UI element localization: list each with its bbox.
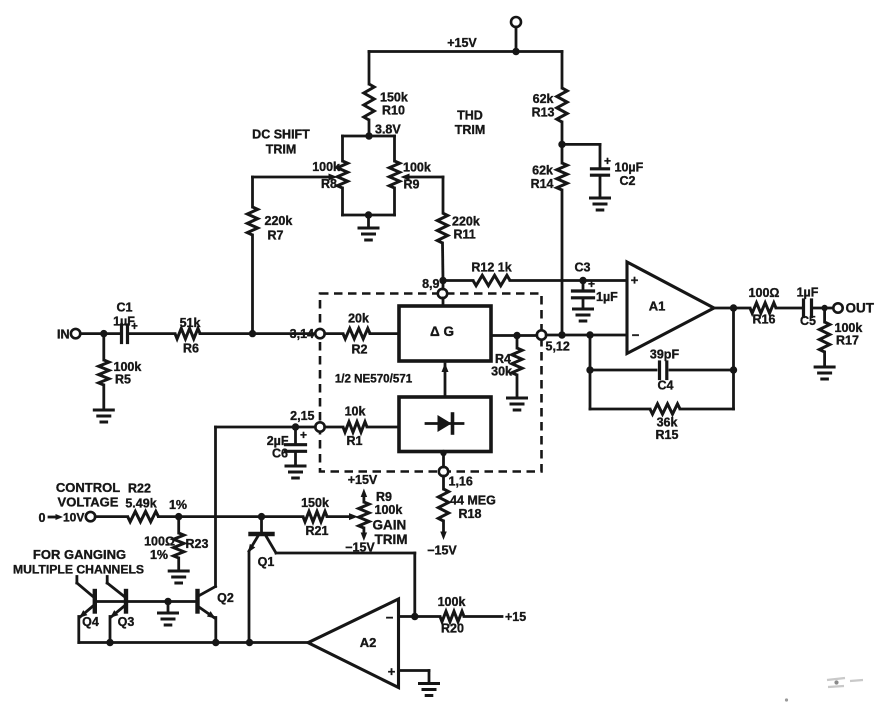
wire A1 output [714, 304, 750, 311]
svg-text:CONTROL: CONTROL [56, 480, 120, 495]
svg-text:Q3: Q3 [118, 615, 135, 629]
wire trim bracket top [343, 135, 395, 138]
wire feedback right [730, 308, 737, 409]
diode symbol [426, 414, 463, 433]
svg-text:C3: C3 [575, 261, 591, 275]
resistor R16 [749, 286, 803, 327]
resistor R17 [819, 308, 862, 367]
svg-text:1µF: 1µF [797, 286, 819, 300]
svg-text:−: − [386, 610, 394, 625]
potentiometer R9 (DC shift) [389, 136, 431, 215]
svg-text:R9: R9 [376, 490, 392, 504]
svg-text:R11: R11 [454, 228, 476, 242]
wire base bus [97, 598, 196, 605]
label DC SHIFT TRIM [252, 128, 310, 157]
wire delta-G output [491, 332, 537, 339]
wire A2 minus input [399, 613, 441, 620]
label CONTROL VOLTAGE [56, 480, 120, 510]
svg-text:TRIM: TRIM [375, 532, 408, 547]
svg-text:R15: R15 [656, 428, 679, 442]
capacitor C4 [590, 348, 734, 393]
node +15V rail [369, 48, 562, 55]
svg-text:Q2: Q2 [217, 591, 234, 605]
svg-text:THD: THD [457, 109, 483, 123]
svg-text:1%: 1% [150, 548, 168, 562]
svg-text:C4: C4 [658, 379, 674, 393]
svg-text:62k: 62k [532, 164, 553, 178]
ground (C6) [286, 466, 305, 478]
svg-text:−15V: −15V [427, 544, 457, 558]
capacitor C5 [797, 286, 819, 329]
svg-text:GAIN: GAIN [373, 518, 407, 533]
svg-text:R12 1k: R12 1k [471, 261, 511, 275]
svg-text:R23: R23 [186, 537, 209, 551]
svg-text:A1: A1 [649, 299, 666, 314]
label THD TRIM [455, 109, 486, 138]
resistor R20 [438, 595, 502, 636]
wire feedback left [586, 335, 593, 409]
svg-text:1/2 NE570/571: 1/2 NE570/571 [335, 373, 413, 386]
ground (C2) [591, 198, 610, 210]
svg-text:+: + [388, 664, 396, 679]
potentiometer R8 [312, 136, 348, 215]
wire trim bracket bottom [343, 211, 395, 218]
wire emitter rail [79, 639, 308, 646]
svg-text:1µF: 1µF [596, 290, 618, 304]
wire C5 to OUT [812, 305, 834, 311]
pin 2,15 [290, 409, 325, 432]
ground (R5) [94, 410, 113, 422]
svg-text:Q1: Q1 [258, 555, 275, 569]
svg-text:R17: R17 [836, 334, 859, 348]
terminal IN [57, 328, 80, 342]
capacitor C1 [113, 301, 175, 343]
transistor Q2 [198, 587, 234, 643]
resistor R2 [325, 312, 399, 357]
label FOR GANGING MULTIPLE CHANNELS [13, 547, 144, 577]
power terminal +15V [511, 17, 521, 52]
ground (R23) [169, 571, 188, 583]
svg-text:100k: 100k [375, 503, 403, 517]
ground (R17) [815, 367, 834, 379]
svg-text:R2: R2 [352, 343, 368, 357]
svg-text:+: + [631, 273, 639, 288]
wire control line [158, 513, 303, 520]
svg-text:IN: IN [57, 328, 70, 342]
label -15V (R18) [427, 544, 457, 558]
svg-text:+: + [604, 154, 611, 168]
block delta-G [399, 306, 491, 361]
svg-text:10µF: 10µF [615, 161, 644, 175]
node R13/R14 [558, 141, 565, 148]
capacitor C6 [267, 427, 307, 466]
capacitor C3 [573, 261, 619, 310]
label 1% (R22) [169, 498, 187, 512]
svg-text:8,9: 8,9 [422, 277, 439, 291]
svg-text:1µF: 1µF [113, 315, 135, 329]
svg-text:44 MEG: 44 MEG [450, 494, 496, 508]
svg-text:R22: R22 [128, 482, 151, 496]
svg-text:+15: +15 [505, 610, 526, 624]
svg-text:R7: R7 [268, 229, 284, 243]
resistor R15 [590, 404, 734, 442]
resistor R22 [95, 482, 158, 522]
svg-text:−: − [632, 328, 640, 343]
svg-text:5,12: 5,12 [546, 340, 570, 354]
resistor R11 [437, 213, 480, 281]
resistor R18 [438, 450, 496, 540]
wire input [80, 332, 120, 335]
svg-text:R9: R9 [404, 178, 420, 192]
svg-text:100Ω: 100Ω [144, 535, 175, 549]
svg-text:R13: R13 [532, 106, 555, 120]
svg-text:C6: C6 [272, 447, 288, 461]
svg-text:TRIM: TRIM [455, 123, 486, 137]
wire R8 wiper [253, 174, 338, 181]
svg-text:R6: R6 [183, 342, 199, 356]
svg-text:1%: 1% [169, 498, 187, 512]
svg-text:+15V: +15V [348, 473, 378, 487]
wire Q1 to A2 [276, 553, 415, 617]
ground (base bus) [159, 602, 178, 626]
label +15V [447, 36, 477, 50]
svg-text:150k: 150k [380, 91, 408, 105]
pin 8,9 [422, 277, 447, 298]
svg-text:100k: 100k [312, 160, 340, 174]
label +15 (R20) [505, 610, 526, 624]
wire gain-cell link [442, 363, 449, 397]
svg-text:20k: 20k [348, 312, 369, 326]
svg-text:R21: R21 [306, 524, 329, 538]
svg-text:2,15: 2,15 [290, 409, 314, 423]
svg-text:C1: C1 [117, 301, 133, 315]
wire 2,15 left [216, 423, 316, 430]
ground (A2 plus) [420, 684, 439, 696]
svg-text:R20: R20 [441, 622, 464, 636]
svg-text:62k: 62k [533, 92, 554, 106]
capacitor C2 [592, 144, 644, 198]
node 3.8V [365, 123, 401, 140]
svg-text:150k: 150k [301, 496, 329, 510]
pin 3,14 [290, 327, 325, 341]
svg-text:3.8V: 3.8V [375, 123, 401, 137]
op-amp A2 [308, 599, 399, 688]
svg-text:100k: 100k [438, 595, 466, 609]
resistor R13 [532, 52, 568, 164]
svg-text:MULTIPLE CHANNELS: MULTIPLE CHANNELS [13, 563, 144, 577]
wire R9 wiper [401, 174, 444, 214]
svg-text:R14: R14 [531, 177, 554, 191]
node R7 junction [249, 330, 256, 337]
label 1/2 NE570/571 [335, 373, 413, 386]
pin 5,12 [537, 330, 570, 353]
resistor R7 [247, 177, 292, 334]
svg-text:C5: C5 [800, 314, 816, 328]
transistor Q1 [245, 517, 276, 569]
ground (trim bracket) [359, 215, 378, 240]
svg-text:Q4: Q4 [82, 615, 99, 629]
resistor R14 [531, 163, 568, 335]
svg-text:C2: C2 [620, 174, 636, 188]
node R5 tap [100, 330, 107, 337]
transistor Q4 [77, 577, 99, 643]
transistor Q3 [107, 577, 134, 643]
resistor R6 [175, 316, 315, 356]
svg-text:220k: 220k [452, 215, 480, 229]
resistor R1 [325, 405, 399, 449]
NE570 dashed box [320, 294, 542, 472]
svg-text:0: 0 [39, 511, 46, 525]
op-amp A1 [627, 262, 714, 354]
svg-text:10k: 10k [345, 405, 366, 419]
svg-text:39pF: 39pF [650, 348, 680, 362]
svg-text:1,16: 1,16 [449, 475, 473, 489]
wire A2 plus input [399, 671, 430, 684]
svg-text:220k: 220k [265, 214, 293, 228]
svg-text:10V: 10V [63, 511, 84, 525]
svg-text:100Ω: 100Ω [749, 286, 780, 300]
svg-text:OUT: OUT [846, 301, 875, 316]
svg-text:R16: R16 [753, 313, 776, 327]
svg-text:A2: A2 [360, 635, 377, 650]
ground (R4) [508, 398, 527, 410]
wire 5,12 to A1 minus [546, 331, 626, 338]
svg-text:+: + [300, 428, 307, 442]
svg-text:+: + [588, 277, 595, 291]
svg-text:Δ G: Δ G [430, 324, 454, 339]
svg-text:+15V: +15V [447, 36, 477, 50]
resistor R21 [301, 496, 358, 538]
resistor R23 [144, 517, 208, 571]
svg-text:TRIM: TRIM [266, 143, 297, 157]
smudges [785, 678, 863, 702]
svg-text:R5: R5 [115, 373, 131, 387]
resistor R12 [443, 261, 626, 286]
terminal 0-10V [39, 511, 96, 526]
ground (C3) [574, 309, 593, 321]
node C3 tap [579, 277, 586, 284]
svg-text:R10: R10 [382, 104, 405, 118]
svg-text:3,14: 3,14 [290, 327, 314, 341]
svg-text:VOLTAGE: VOLTAGE [58, 495, 119, 510]
wire Q2 collector riser [214, 427, 217, 587]
svg-text:FOR GANGING: FOR GANGING [33, 547, 126, 562]
svg-text:5.49k: 5.49k [125, 497, 156, 511]
pin 1,16 [439, 467, 473, 489]
wire Q1 emitter drop [248, 552, 251, 643]
wire 8,9 stem [439, 277, 446, 306]
resistor R5 [99, 334, 142, 410]
potentiometer R9 gain trim [345, 473, 407, 555]
svg-text:30k: 30k [491, 365, 512, 379]
terminal OUT [833, 301, 874, 316]
wire to C2 [562, 143, 600, 146]
block diode cell [399, 397, 491, 452]
svg-text:51k: 51k [180, 316, 201, 330]
svg-text:R18: R18 [459, 507, 482, 521]
svg-text:100k: 100k [403, 161, 431, 175]
svg-text:R1: R1 [347, 434, 363, 448]
svg-text:DC SHIFT: DC SHIFT [252, 128, 310, 142]
resistor R10 [364, 52, 408, 137]
resistor R4 [491, 336, 522, 399]
